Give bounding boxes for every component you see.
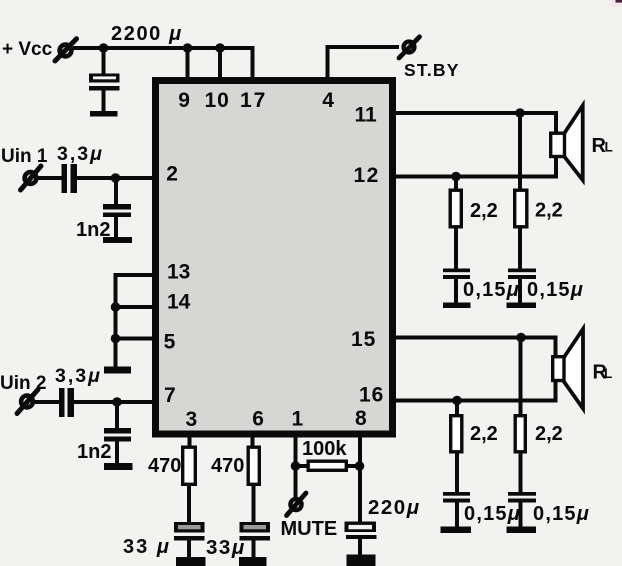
svg-text:10: 10	[205, 89, 230, 112]
svg-text:100k: 100k	[302, 438, 347, 460]
svg-text:Uin 1: Uin 1	[1, 146, 48, 167]
svg-text:0,15μ: 0,15μ	[463, 279, 520, 301]
svg-text:17: 17	[240, 89, 267, 112]
svg-text:ST.BY: ST.BY	[404, 60, 460, 80]
svg-text:L: L	[605, 140, 613, 155]
svg-text:220μ: 220μ	[368, 496, 421, 519]
svg-text:MUTE: MUTE	[281, 518, 338, 540]
svg-text:4: 4	[322, 89, 334, 112]
svg-text:15: 15	[351, 328, 376, 351]
svg-text:11: 11	[355, 103, 378, 126]
svg-text:+ Vcc: + Vcc	[2, 39, 53, 60]
svg-text:1n2: 1n2	[76, 219, 110, 241]
svg-text:33 μ: 33 μ	[123, 536, 171, 558]
svg-text:14: 14	[167, 291, 191, 314]
svg-text:7: 7	[164, 384, 176, 407]
svg-text:3,3μ: 3,3μ	[55, 365, 102, 387]
svg-text:12: 12	[354, 164, 380, 187]
svg-text:0,15μ: 0,15μ	[533, 503, 590, 525]
svg-text:9: 9	[178, 89, 190, 112]
svg-text:0,15μ: 0,15μ	[527, 279, 584, 301]
svg-text:3: 3	[186, 408, 198, 431]
svg-text:1n2: 1n2	[77, 441, 111, 463]
svg-text:13: 13	[167, 261, 190, 284]
svg-text:5: 5	[164, 331, 176, 354]
svg-text:2200 μ: 2200 μ	[111, 23, 183, 45]
svg-text:470: 470	[148, 455, 181, 477]
svg-text:Uin 2: Uin 2	[0, 373, 46, 394]
svg-text:470: 470	[211, 455, 244, 477]
svg-text:33μ: 33μ	[206, 536, 246, 559]
svg-text:L: L	[604, 366, 612, 381]
svg-text:2: 2	[166, 162, 178, 185]
svg-text:2,2: 2,2	[470, 423, 498, 445]
svg-text:16: 16	[359, 384, 384, 407]
svg-text:8: 8	[355, 407, 367, 430]
svg-text:2,2: 2,2	[535, 423, 563, 445]
svg-text:6: 6	[252, 408, 264, 431]
svg-text:3,3μ: 3,3μ	[57, 143, 104, 165]
svg-text:2,2: 2,2	[535, 200, 563, 222]
svg-text:1: 1	[292, 408, 304, 431]
svg-text:2,2: 2,2	[470, 200, 498, 222]
svg-text:0,15μ: 0,15μ	[464, 503, 521, 525]
